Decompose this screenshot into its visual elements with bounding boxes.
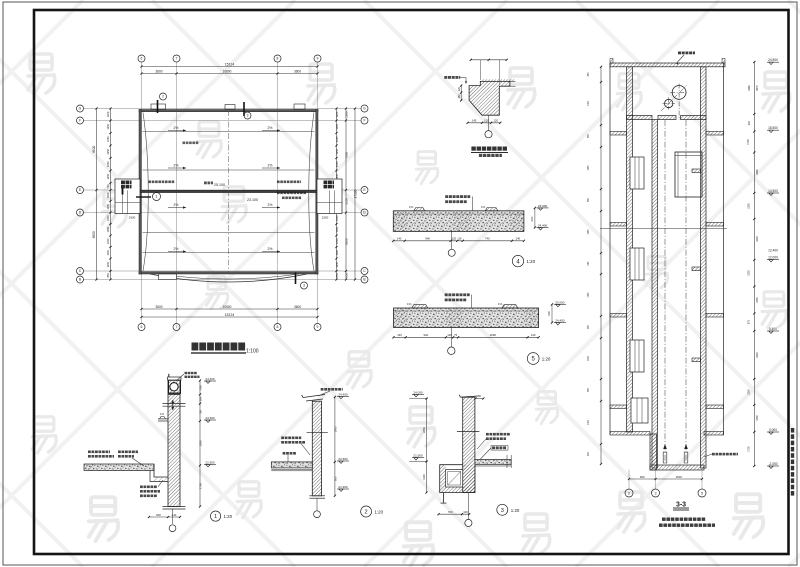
svg-text:1250: 1250 xyxy=(106,123,110,129)
bottom curved canopy edge xyxy=(150,274,307,282)
svg-text:1150: 1150 xyxy=(335,226,339,232)
svg-text:1700: 1700 xyxy=(748,446,751,452)
svg-text:1500: 1500 xyxy=(676,475,683,479)
svg-text:8900: 8900 xyxy=(92,231,96,238)
left niche box xyxy=(115,179,140,214)
plan interior roof lines xyxy=(143,132,315,253)
svg-text:3: 3 xyxy=(247,114,249,118)
detail 4 slab strip xyxy=(393,211,524,232)
detail 5 leader texts xyxy=(445,293,448,296)
svg-text:1:100: 1:100 xyxy=(246,349,259,355)
svg-text:1250: 1250 xyxy=(335,261,339,267)
svg-text:22.500: 22.500 xyxy=(205,461,215,465)
detail 5 top curbs xyxy=(412,305,428,308)
svg-text:1:20: 1:20 xyxy=(542,357,551,362)
datum line xyxy=(600,227,727,229)
detail 5 axis leader xyxy=(450,328,452,348)
detail 3 label xyxy=(497,504,508,515)
lintel bottom dim xyxy=(468,122,501,124)
svg-text:1325: 1325 xyxy=(748,270,751,276)
axis bubbles left xyxy=(77,105,84,112)
svg-text:1150: 1150 xyxy=(335,238,339,244)
detail 1 lower leader texts xyxy=(140,486,143,489)
svg-text:1800: 1800 xyxy=(198,440,202,446)
plan bottom dimensions xyxy=(142,308,318,310)
svg-text:3: 3 xyxy=(303,284,305,288)
detail 3 mid ties xyxy=(457,431,480,433)
svg-text:25.100: 25.100 xyxy=(214,183,225,187)
svg-text:8100: 8100 xyxy=(92,145,96,152)
svg-text:7: 7 xyxy=(176,57,178,61)
detail 2 wall foot xyxy=(309,495,325,497)
svg-text:3600: 3600 xyxy=(155,69,162,73)
curved inner wall faces xyxy=(143,113,148,272)
svg-text:2%: 2% xyxy=(268,126,273,130)
roof curb rects on top wall xyxy=(151,104,166,109)
plan outer walls xyxy=(139,110,318,112)
svg-text:24.400: 24.400 xyxy=(205,377,215,381)
svg-text:24.500: 24.500 xyxy=(768,58,778,62)
svg-text:600: 600 xyxy=(547,311,551,316)
svg-text:24.000: 24.000 xyxy=(413,391,423,395)
corridor door frames xyxy=(630,157,644,189)
svg-text:160: 160 xyxy=(457,94,461,99)
svg-text:900: 900 xyxy=(640,475,645,479)
svg-text:3600: 3600 xyxy=(294,69,301,73)
svg-text:5: 5 xyxy=(701,491,703,495)
svg-text:900: 900 xyxy=(156,513,161,517)
svg-text:1150: 1150 xyxy=(106,249,110,255)
detail 3 leader texts right xyxy=(486,433,489,436)
detail 2 mid ties xyxy=(307,431,328,433)
svg-text:1%: 1% xyxy=(409,205,414,209)
svg-text:140: 140 xyxy=(516,237,521,241)
svg-text:4100: 4100 xyxy=(756,236,759,242)
lintel caption xyxy=(471,147,475,151)
svg-text:1150: 1150 xyxy=(335,249,339,255)
plan top dimensions xyxy=(142,66,318,68)
svg-text:850: 850 xyxy=(344,272,348,277)
svg-text:21.500: 21.500 xyxy=(413,454,423,458)
svg-text:15124: 15124 xyxy=(225,62,235,66)
detail 1 slab ties xyxy=(163,403,186,405)
section roof slab xyxy=(610,63,725,67)
pit walls and slab xyxy=(650,434,657,470)
svg-text:3460: 3460 xyxy=(756,169,759,175)
svg-text:25.000: 25.000 xyxy=(555,300,565,304)
svg-text:390: 390 xyxy=(198,396,202,401)
svg-text:2%: 2% xyxy=(174,203,179,207)
section outer-left line xyxy=(609,63,611,435)
svg-text:10800: 10800 xyxy=(223,305,232,309)
svg-text:740: 740 xyxy=(485,237,490,241)
section left dim xyxy=(600,67,602,464)
svg-text:1100: 1100 xyxy=(422,474,426,480)
section cut flag mid (3) xyxy=(243,102,245,116)
svg-text:18.500: 18.500 xyxy=(768,126,778,130)
svg-text:1250: 1250 xyxy=(588,229,590,235)
svg-text:145: 145 xyxy=(472,118,477,122)
svg-text:120: 120 xyxy=(457,86,461,91)
svg-text:1:20: 1:20 xyxy=(527,259,536,264)
svg-text:1%: 1% xyxy=(498,302,503,306)
svg-text:1:20: 1:20 xyxy=(511,508,520,513)
detail 1 wall foot xyxy=(163,506,186,508)
svg-text:25.000: 25.000 xyxy=(538,204,548,208)
svg-text:1150: 1150 xyxy=(106,203,110,209)
svg-text:90: 90 xyxy=(458,237,462,241)
svg-text:2%: 2% xyxy=(174,164,179,168)
svg-text:15124: 15124 xyxy=(225,313,235,317)
svg-text:1%: 1% xyxy=(481,205,486,209)
plan mid wall E xyxy=(139,190,318,192)
svg-text:G: G xyxy=(79,107,82,111)
detail 1 coping xyxy=(168,380,180,393)
svg-text:6: 6 xyxy=(141,325,143,329)
svg-text:G: G xyxy=(363,107,366,111)
svg-text:10800: 10800 xyxy=(223,69,232,73)
svg-text:3: 3 xyxy=(655,491,657,495)
svg-text:850: 850 xyxy=(335,273,339,278)
svg-text:940: 940 xyxy=(423,333,428,337)
svg-text:1200: 1200 xyxy=(588,355,590,361)
axis bubbles top xyxy=(138,55,145,62)
svg-text:17100: 17100 xyxy=(353,189,357,198)
detail 3 bottom xyxy=(443,493,445,504)
svg-text:1250: 1250 xyxy=(335,136,339,142)
section cut flag top-left (2) xyxy=(157,100,159,113)
svg-text:120: 120 xyxy=(452,237,457,241)
svg-text:14.500: 14.500 xyxy=(768,189,778,193)
detail 2 levels xyxy=(339,396,343,398)
detail 4 leader texts xyxy=(445,195,448,198)
svg-text:875: 875 xyxy=(748,319,751,324)
floor slabs left/right xyxy=(610,132,627,136)
svg-text:3600: 3600 xyxy=(155,305,162,309)
svg-text:700: 700 xyxy=(198,410,202,415)
right niche box xyxy=(317,179,342,214)
lintel hatched body xyxy=(469,81,510,115)
svg-text:140: 140 xyxy=(531,333,536,337)
detail 5 label xyxy=(527,353,539,365)
buffers xyxy=(663,452,667,463)
svg-text:F: F xyxy=(363,119,365,123)
detail 1 wall xyxy=(168,394,180,506)
svg-text:1: 1 xyxy=(214,514,217,520)
svg-text:2%: 2% xyxy=(268,164,273,168)
guide rails dash-dot xyxy=(664,120,666,462)
svg-text:1350: 1350 xyxy=(756,415,759,421)
section right wall xyxy=(701,67,707,468)
detail 3 right slab xyxy=(475,459,511,464)
detail 4 axis leader xyxy=(451,231,453,249)
svg-text:3870: 3870 xyxy=(756,85,759,91)
svg-text:3-3: 3-3 xyxy=(676,501,686,508)
section left wall xyxy=(627,67,633,432)
machine floor slab xyxy=(627,116,653,120)
svg-text:1500: 1500 xyxy=(129,216,136,220)
svg-text:1:20: 1:20 xyxy=(375,510,384,515)
detail 1 roof slab left xyxy=(84,464,154,471)
svg-text:1250: 1250 xyxy=(588,292,590,298)
svg-text:1250: 1250 xyxy=(588,165,590,171)
svg-text:700: 700 xyxy=(106,184,110,189)
pit note xyxy=(712,453,715,456)
svg-text:1050: 1050 xyxy=(106,192,110,198)
svg-text:1700: 1700 xyxy=(198,483,202,489)
detail 4 right levels xyxy=(538,208,542,210)
svg-text:1250: 1250 xyxy=(335,123,339,129)
svg-text:2: 2 xyxy=(365,510,368,516)
svg-text:8: 8 xyxy=(277,325,279,329)
svg-text:1300: 1300 xyxy=(588,100,590,106)
svg-text:2060: 2060 xyxy=(490,333,497,337)
section cut flag bottom-right xyxy=(295,273,297,285)
svg-text:1860: 1860 xyxy=(748,85,751,91)
lintel leader circle xyxy=(488,115,490,130)
svg-text:1900: 1900 xyxy=(333,426,337,432)
lintel left vdim xyxy=(460,86,462,101)
detail 3 L footing with duct xyxy=(440,465,475,493)
ground slabs xyxy=(610,432,650,436)
detail 2 label xyxy=(361,506,372,517)
svg-text:700: 700 xyxy=(448,510,453,514)
svg-text:120: 120 xyxy=(493,118,498,122)
svg-text:F: F xyxy=(79,119,81,123)
svg-text:140: 140 xyxy=(397,237,402,241)
svg-text:600: 600 xyxy=(530,216,534,221)
svg-text:12.400: 12.400 xyxy=(768,249,778,253)
right margin vertical title text xyxy=(791,428,794,496)
svg-text:1730: 1730 xyxy=(747,139,750,145)
lintel top dim xyxy=(471,59,507,61)
detail 4 label xyxy=(512,255,523,266)
detail 1 label xyxy=(211,511,221,521)
svg-text:3: 3 xyxy=(501,508,504,514)
detail 4 top curbs xyxy=(414,208,425,211)
svg-text:9: 9 xyxy=(317,57,319,61)
svg-text:600: 600 xyxy=(333,476,337,481)
svg-text:24.400: 24.400 xyxy=(338,392,348,396)
svg-text:2%: 2% xyxy=(174,247,179,251)
svg-text:1:20: 1:20 xyxy=(224,514,233,519)
machine room label xyxy=(678,52,681,55)
detail 2 leader texts xyxy=(281,437,284,440)
svg-text:1500: 1500 xyxy=(322,216,329,220)
svg-text:940: 940 xyxy=(425,237,430,241)
svg-text:1250: 1250 xyxy=(106,136,110,142)
svg-text:22.500: 22.500 xyxy=(338,457,348,461)
detail 5 bottom dim xyxy=(394,336,539,338)
detail 4 bottom dim xyxy=(393,240,524,242)
detail 5 right levels xyxy=(556,304,560,306)
svg-text:1%: 1% xyxy=(160,412,165,416)
svg-text:6: 6 xyxy=(141,57,143,61)
plan axis grid horizontals xyxy=(84,109,362,280)
detail 2 wall xyxy=(312,401,321,496)
svg-text:5.400: 5.400 xyxy=(769,327,777,331)
section bottom bubbles xyxy=(628,470,630,489)
detail 3 left vdim xyxy=(409,398,428,400)
svg-text:2400: 2400 xyxy=(756,352,759,358)
svg-text:2250: 2250 xyxy=(344,198,348,205)
shaft left wall xyxy=(652,120,658,469)
detail 1 gutter step xyxy=(154,464,168,477)
svg-text:0.000: 0.000 xyxy=(769,428,777,432)
watermark glyphs xyxy=(28,54,55,94)
svg-text:1350: 1350 xyxy=(756,297,759,303)
lintel left leader text xyxy=(444,76,447,79)
detail 1 drip flange xyxy=(158,418,168,420)
svg-text:400: 400 xyxy=(748,120,751,125)
svg-text:1300: 1300 xyxy=(748,203,751,209)
svg-text:8: 8 xyxy=(277,57,279,61)
plan left dimensions xyxy=(110,109,112,280)
detail 2 coping flashing xyxy=(302,395,325,402)
svg-text:1%: 1% xyxy=(407,302,412,306)
detail 5 slab strip xyxy=(394,308,539,328)
svg-text:24.400: 24.400 xyxy=(555,319,565,323)
svg-text:600: 600 xyxy=(198,385,202,390)
svg-text:2%: 2% xyxy=(268,203,273,207)
svg-text:-2.050: -2.050 xyxy=(768,462,777,466)
svg-text:1250: 1250 xyxy=(335,148,339,154)
svg-text:2250: 2250 xyxy=(422,427,426,433)
landing sill stubs xyxy=(692,169,701,173)
svg-text:21.900: 21.900 xyxy=(338,485,348,489)
svg-text:1250: 1250 xyxy=(106,173,110,179)
plan right dimensions xyxy=(336,109,338,280)
svg-text:1150: 1150 xyxy=(106,215,110,221)
svg-text:23.500: 23.500 xyxy=(205,416,215,420)
elevator car xyxy=(675,152,702,197)
svg-text:1: 1 xyxy=(156,195,158,199)
svg-text:75: 75 xyxy=(454,333,458,337)
plan annotations xyxy=(149,181,152,184)
detail 1 left leader texts xyxy=(88,451,91,454)
svg-text:1250: 1250 xyxy=(106,148,110,154)
detail 1 bottom dims xyxy=(149,516,180,518)
plan axis grid verticals xyxy=(142,62,318,324)
svg-text:9: 9 xyxy=(317,325,319,329)
traction machine xyxy=(672,86,686,100)
svg-text:1200: 1200 xyxy=(335,111,339,117)
svg-text:12.000: 12.000 xyxy=(768,256,778,260)
svg-text:1200: 1200 xyxy=(344,111,348,118)
axis bubbles bottom xyxy=(138,324,145,331)
预留孔 bold labels xyxy=(121,181,125,185)
svg-text:1200: 1200 xyxy=(106,111,110,117)
svg-text:1250: 1250 xyxy=(335,161,339,167)
svg-text:24.400: 24.400 xyxy=(538,224,548,228)
detail 1 right vdim xyxy=(199,381,201,507)
svg-text:850: 850 xyxy=(106,273,110,278)
svg-text:1150: 1150 xyxy=(106,238,110,244)
section right dim xyxy=(753,62,755,466)
svg-text:1250: 1250 xyxy=(106,261,110,267)
section outer-right line xyxy=(723,63,725,435)
bottom wall rect xyxy=(159,274,177,280)
slope arrows 2% xyxy=(168,130,186,132)
svg-text:23.100: 23.100 xyxy=(247,198,258,202)
axis bubbles right xyxy=(361,105,368,112)
svg-text:140: 140 xyxy=(397,333,402,337)
svg-text:5850: 5850 xyxy=(344,238,348,245)
svg-text:7000: 7000 xyxy=(344,152,348,159)
detail 3 wall xyxy=(463,397,475,492)
section cut flag on mid wall (1) xyxy=(122,188,124,195)
svg-text:2: 2 xyxy=(162,95,164,99)
detail 2 right vdim xyxy=(334,397,336,496)
svg-text:1150: 1150 xyxy=(106,226,110,232)
svg-text:120: 120 xyxy=(463,510,468,514)
svg-text:3600: 3600 xyxy=(294,305,301,309)
svg-text:2%: 2% xyxy=(268,247,273,251)
svg-text:2: 2 xyxy=(628,491,630,495)
svg-text:1150: 1150 xyxy=(335,215,339,221)
section notes xyxy=(662,518,666,521)
svg-text:2%: 2% xyxy=(174,126,179,130)
svg-text:1300: 1300 xyxy=(748,389,751,395)
plan title xyxy=(192,343,199,351)
svg-text:1300: 1300 xyxy=(588,419,590,425)
svg-text:7: 7 xyxy=(176,325,178,329)
detail 2 slab xyxy=(271,462,312,468)
svg-text:1250: 1250 xyxy=(106,161,110,167)
detail 1 levels xyxy=(206,381,210,383)
